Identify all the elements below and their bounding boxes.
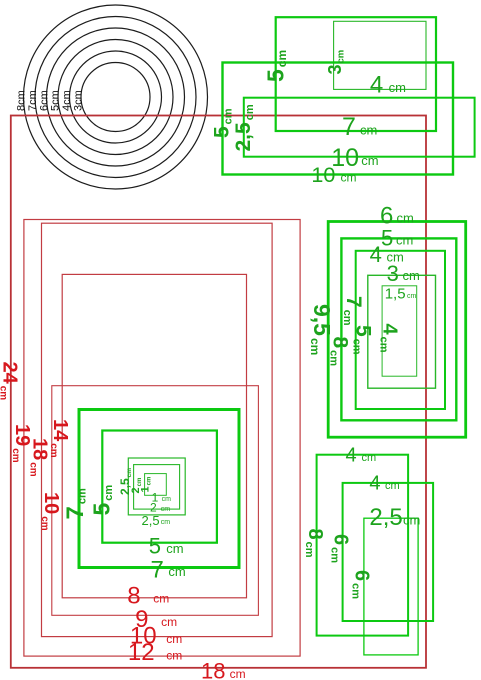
svg-text:cm: cm [360,122,377,137]
svg-text:cm: cm [153,592,169,606]
svg-text:5: 5 [381,225,393,250]
svg-text:4: 4 [370,242,382,267]
svg-text:5: 5 [149,534,161,559]
svg-text:4: 4 [346,445,357,467]
svg-text:4: 4 [369,473,380,495]
svg-text:10: 10 [331,144,359,172]
svg-text:cm: cm [230,667,246,680]
svg-text:1: 1 [152,491,159,505]
svg-text:cm: cm [389,80,406,95]
svg-text:cm: cm [385,480,400,492]
svg-text:18: 18 [201,659,225,680]
svg-text:3cm: 3cm [72,90,84,111]
svg-text:cm: cm [161,615,177,629]
svg-text:cm: cm [161,506,171,513]
svg-text:cm: cm [341,170,357,184]
svg-text:cm: cm [166,649,182,663]
svg-text:cm: cm [397,211,414,226]
svg-text:12: 12 [128,639,155,666]
svg-text:cm: cm [403,268,420,283]
svg-text:4: 4 [370,72,383,99]
svg-text:cm: cm [166,541,183,556]
svg-text:cm: cm [396,233,413,248]
svg-text:7cm: 7cm [27,90,39,111]
svg-text:7: 7 [342,113,356,141]
svg-text:cm: cm [407,293,417,300]
svg-text:cm: cm [168,564,185,579]
svg-text:2,5: 2,5 [369,504,402,531]
svg-text:4cm: 4cm [61,90,73,111]
svg-text:8cm: 8cm [15,90,27,111]
svg-text:5cm: 5cm [49,90,61,111]
svg-text:7: 7 [151,556,164,583]
svg-text:cm: cm [362,452,377,464]
svg-text:cm: cm [162,496,172,503]
svg-text:1,5: 1,5 [385,286,406,303]
svg-text:cm: cm [166,632,182,646]
svg-text:2,5: 2,5 [142,513,160,528]
svg-text:cm: cm [161,519,171,526]
svg-text:cm: cm [403,512,420,527]
svg-text:3: 3 [387,261,399,286]
svg-text:cm: cm [361,153,378,168]
